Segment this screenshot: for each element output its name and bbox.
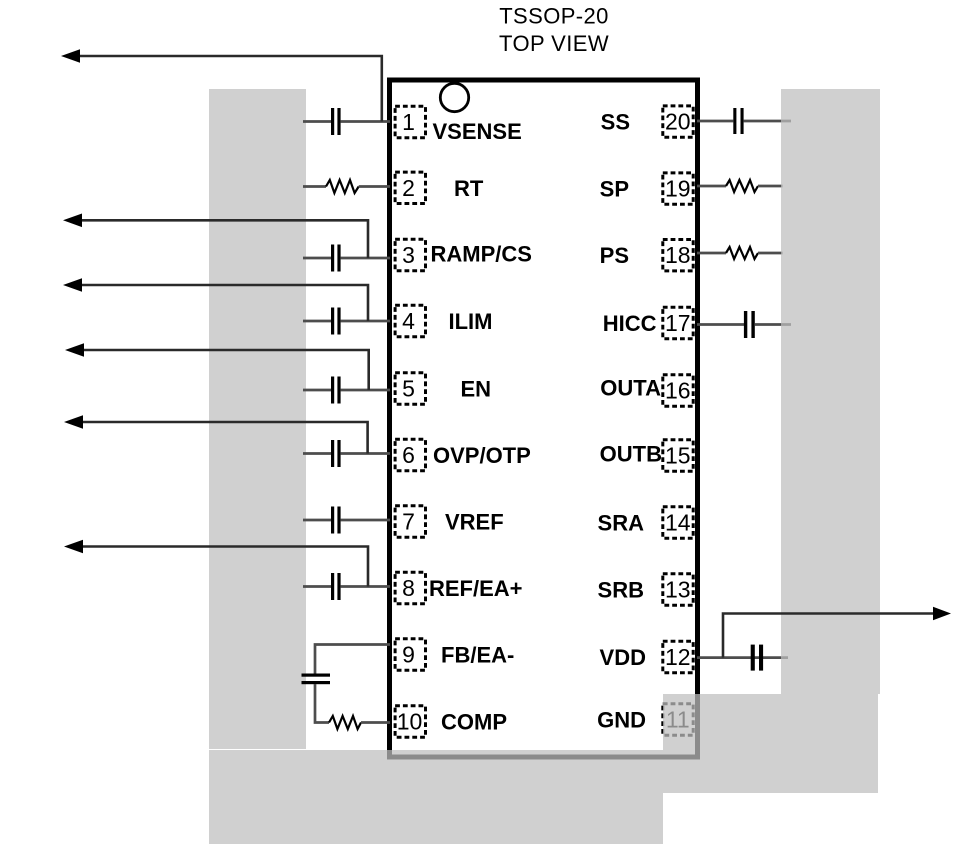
title TSSOP-20 TOP VIEW <box>499 4 609 57</box>
svg-text:SP: SP <box>600 177 629 202</box>
resistor R19 pin 19 <box>697 180 783 192</box>
arrow net from pin 4 <box>63 278 368 321</box>
IC package body U1 (TSSOP-20) <box>390 80 698 757</box>
wire from C9 down to resistor R10 <box>315 684 329 723</box>
label PS pin 18 <box>600 243 629 268</box>
svg-text:19: 19 <box>665 176 691 202</box>
pin box 17 <box>663 307 693 338</box>
pin 1 indicator circle <box>440 83 468 111</box>
svg-text:20: 20 <box>665 109 691 135</box>
label SRB pin 13 <box>598 578 644 603</box>
label SRA pin 14 <box>598 511 645 536</box>
svg-text:SRA: SRA <box>598 511 645 536</box>
label RAMP/CS pin 3 <box>431 242 532 267</box>
pin box 1 <box>395 106 425 137</box>
svg-text:VSENSE: VSENSE <box>433 119 522 144</box>
svg-text:5: 5 <box>402 376 415 402</box>
svg-text:TSSOP-20: TSSOP-20 <box>499 4 609 29</box>
pin box 5 <box>395 373 425 404</box>
pin box 11 <box>663 704 693 735</box>
svg-text:REF/EA+: REF/EA+ <box>429 576 523 601</box>
pin box 10 <box>395 706 425 737</box>
label OVP/OTP pin 6 <box>433 443 531 468</box>
capacitor C9 (vertical, pins 9-10 network) <box>302 674 331 685</box>
arrow net from pin 12 VDD <box>723 607 951 658</box>
pin box 12 <box>663 641 693 672</box>
pin box 20 <box>663 106 693 137</box>
svg-text:2: 2 <box>402 175 415 201</box>
wire pin 20 with capacitor C20 <box>697 108 791 134</box>
wire pin 4 with capacitor C4 <box>303 308 390 335</box>
svg-text:16: 16 <box>665 378 691 404</box>
resistor R10 pin 10 <box>329 716 390 729</box>
arrow net from pin 3 <box>63 214 368 259</box>
svg-text:1: 1 <box>402 109 415 135</box>
pin box 2 <box>395 172 425 203</box>
svg-text:OUTB: OUTB <box>600 442 662 467</box>
svg-text:SRB: SRB <box>598 578 644 603</box>
wire pin 1 with capacitor C1 <box>303 108 390 135</box>
svg-text:VDD: VDD <box>600 645 646 670</box>
svg-text:14: 14 <box>665 510 691 536</box>
svg-text:8: 8 <box>402 575 415 601</box>
svg-text:15: 15 <box>665 443 691 469</box>
svg-text:PS: PS <box>600 243 629 268</box>
arrow net from pin 5 <box>65 343 369 390</box>
label VDD pin 12 <box>600 645 646 670</box>
pin box 8 <box>395 572 425 603</box>
label SP pin 19 <box>600 177 629 202</box>
label EN pin 5 <box>461 377 492 402</box>
svg-text:OVP/OTP: OVP/OTP <box>433 443 531 468</box>
svg-text:6: 6 <box>402 442 415 468</box>
label FB/EA- pin 9 <box>441 643 514 668</box>
label OUTB pin 15 <box>600 442 662 467</box>
label COMP pin 10 <box>441 710 507 735</box>
svg-text:10: 10 <box>397 709 423 735</box>
label VSENSE pin 1 <box>433 119 522 144</box>
wire pin 17 with capacitor C17 <box>697 311 791 338</box>
svg-text:VREF: VREF <box>445 510 504 535</box>
bottom-left gray panel <box>209 750 663 844</box>
svg-text:HICC: HICC <box>603 311 657 336</box>
label RT pin 2 <box>454 176 484 201</box>
label HICC pin 17 <box>603 311 657 336</box>
svg-text:9: 9 <box>402 642 415 668</box>
svg-text:4: 4 <box>402 308 415 334</box>
svg-text:EN: EN <box>461 377 492 402</box>
svg-text:GND: GND <box>597 708 646 733</box>
left gray panel <box>209 89 306 749</box>
svg-text:17: 17 <box>665 310 691 336</box>
svg-text:RT: RT <box>454 176 484 201</box>
pin box 16 <box>663 375 693 406</box>
pin box 14 <box>663 507 693 538</box>
resistor R2 pin 2 <box>303 180 390 193</box>
wire pin 5 with capacitor C5 <box>303 377 390 404</box>
svg-text:TOP VIEW: TOP VIEW <box>499 31 609 56</box>
label OUTA pin 16 <box>600 376 661 401</box>
arrow net from pin 6 <box>64 415 368 453</box>
label VREF pin 7 <box>445 510 504 535</box>
right gray panel <box>781 89 880 694</box>
pin box 18 <box>663 240 693 271</box>
svg-text:7: 7 <box>402 509 415 535</box>
wire pin 6 with capacitor C6 <box>303 440 390 467</box>
label REF/EA+ pin 8 <box>429 576 523 601</box>
svg-text:RAMP/CS: RAMP/CS <box>431 242 532 267</box>
svg-text:COMP: COMP <box>441 710 507 735</box>
svg-text:13: 13 <box>665 577 691 603</box>
svg-text:12: 12 <box>665 644 691 670</box>
wire pin 12 VDD with capacitor C12 <box>697 645 788 671</box>
arrow net from pin 1 <box>61 49 382 121</box>
pin box 7 <box>395 506 425 537</box>
wire pin 9 (FB/EA-) <box>315 645 390 675</box>
pin box 19 <box>663 173 693 204</box>
pin box 13 <box>663 574 693 605</box>
svg-text:18: 18 <box>665 242 691 268</box>
label GND pin 11 <box>597 708 646 733</box>
pin box 9 <box>395 639 425 670</box>
resistor R18 pin 18 <box>697 247 783 259</box>
svg-text:SS: SS <box>601 110 630 135</box>
label SS pin 20 <box>601 110 630 135</box>
svg-text:3: 3 <box>402 242 415 268</box>
label ILIM pin 4 <box>449 309 493 334</box>
pin box 6 <box>395 439 425 470</box>
svg-text:OUTA: OUTA <box>600 376 661 401</box>
svg-text:ILIM: ILIM <box>449 309 493 334</box>
wire pin 3 with capacitor C3 <box>303 245 390 272</box>
arrow net from pin 8 <box>64 540 368 587</box>
pin box 3 <box>395 239 425 270</box>
bottom-right gray panel <box>663 694 878 793</box>
wire pin 8 with capacitor C8 <box>303 573 390 600</box>
pin box 4 <box>395 305 425 336</box>
pin box 15 <box>663 440 693 471</box>
svg-text:FB/EA-: FB/EA- <box>441 643 514 668</box>
wire pin 7 with capacitor C7 <box>303 507 390 534</box>
